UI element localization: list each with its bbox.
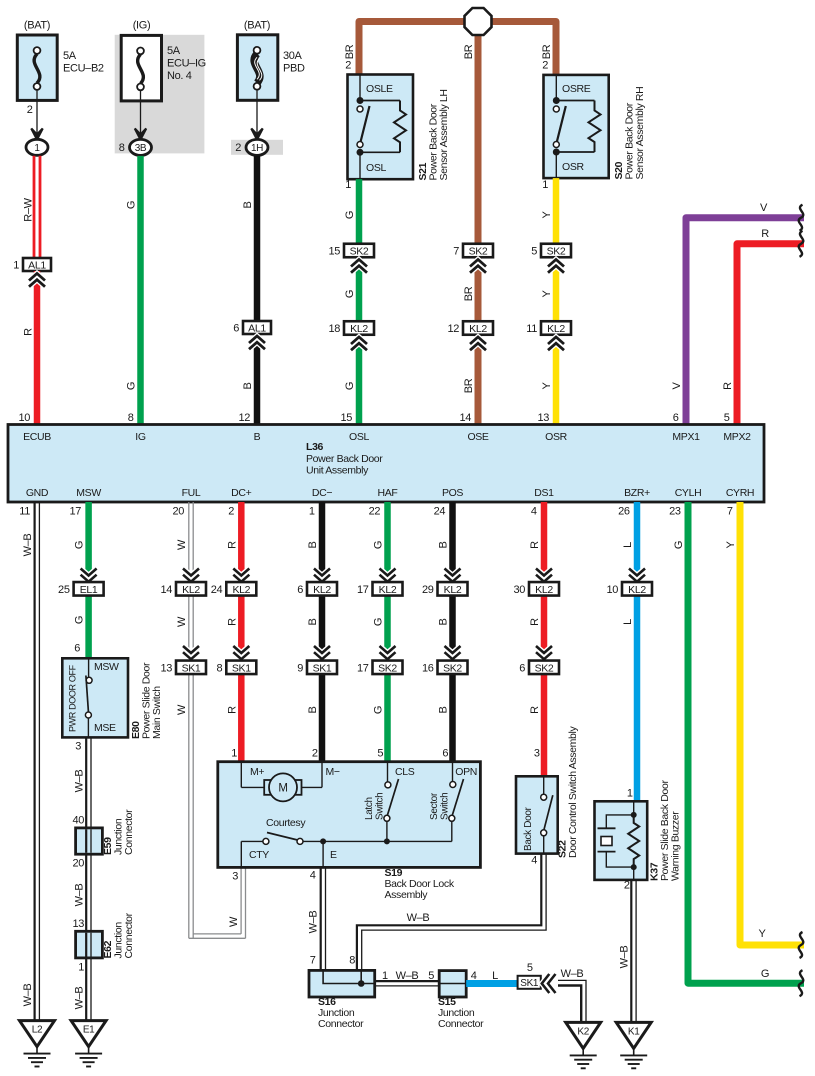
wire R from AL1 to L36 pin 10 (ECUB) xyxy=(18,271,40,425)
svg-text:G: G xyxy=(344,211,356,219)
svg-text:13: 13 xyxy=(160,662,172,674)
door control switch S22 (Door Control Switch Assembly) xyxy=(516,776,558,853)
wire label R-W xyxy=(23,197,35,221)
svg-text:1: 1 xyxy=(345,179,351,191)
wire label B xyxy=(307,619,319,626)
svg-text:5: 5 xyxy=(377,748,383,760)
wire label BR xyxy=(463,378,475,393)
back door sensor S21 (Power Back Door Sensor Assembly LH) xyxy=(348,75,414,180)
wire label W-B xyxy=(308,911,320,934)
svg-text:R: R xyxy=(226,541,238,549)
svg-text:G: G xyxy=(373,541,385,549)
warning buzzer K37 (Power Slide Back Door Warning Buzzer) xyxy=(595,801,648,880)
wire label G xyxy=(344,290,356,298)
chevron below KL2 xyxy=(548,337,564,350)
svg-text:1: 1 xyxy=(231,748,237,760)
wire label W xyxy=(176,539,188,550)
wire R (MPX2) multiplex line xyxy=(724,244,804,425)
svg-text:KL2: KL2 xyxy=(535,584,553,596)
wire G from L36 pin 17 (MSW) to E80 pin 6 xyxy=(69,502,91,658)
wire R from L36 pin 2 to pin 1 xyxy=(228,502,244,762)
wire label W xyxy=(176,616,188,627)
fuse 5A ECU-IG No. 4 (IG) xyxy=(121,20,206,138)
svg-text:Connector: Connector xyxy=(123,809,135,855)
wire label B xyxy=(242,383,254,390)
svg-text:KL2: KL2 xyxy=(350,323,368,335)
svg-text:CYRH: CYRH xyxy=(726,487,754,499)
label S20 Power Back Door Sensor Assembly RH xyxy=(613,87,646,180)
svg-text:BR: BR xyxy=(463,378,475,393)
svg-text:CTY: CTY xyxy=(249,849,269,861)
wire L from S15 pin 4 to SK1 pin 5 xyxy=(466,970,517,987)
wire W-B from L36 pin 11 (GND) to ground L2 xyxy=(19,502,39,1021)
svg-text:G: G xyxy=(761,968,769,980)
label K37 Power Slide Back Door Warning Buzzer xyxy=(649,780,682,881)
connector arrow into node 1 xyxy=(31,129,42,140)
svg-text:KL2: KL2 xyxy=(182,584,200,596)
svg-text:KL2: KL2 xyxy=(547,323,565,335)
svg-text:R: R xyxy=(529,541,541,549)
wire B from L36 pin 24 to pin 6 xyxy=(434,502,456,762)
svg-text:OSR: OSR xyxy=(545,431,567,443)
svg-text:1: 1 xyxy=(78,962,84,974)
wire label R xyxy=(226,706,238,714)
svg-text:OSL: OSL xyxy=(349,431,369,443)
svg-text:K2: K2 xyxy=(577,1026,589,1037)
connector SK1 pin 5 xyxy=(518,962,541,989)
back door sensor S20 (Power Back Door Sensor Assembly RH) xyxy=(544,75,609,178)
chevron above connector xyxy=(233,569,249,582)
connector KL2 pin 10 xyxy=(606,582,652,596)
connector KL2 pin 14 xyxy=(160,582,206,596)
svg-text:1: 1 xyxy=(309,506,315,518)
svg-text:ECU–B2: ECU–B2 xyxy=(63,63,104,75)
wire label G xyxy=(673,541,685,549)
svg-text:SK1: SK1 xyxy=(232,662,251,674)
svg-text:3: 3 xyxy=(75,741,81,753)
svg-text:17: 17 xyxy=(357,662,369,674)
svg-text:R: R xyxy=(722,382,734,390)
svg-text:Switch: Switch xyxy=(440,793,451,820)
wire W-B from K37 pin 2 to ground K1 xyxy=(624,880,636,1023)
svg-text:OSL: OSL xyxy=(366,162,386,174)
svg-text:Main Switch: Main Switch xyxy=(151,686,163,739)
svg-text:(BAT): (BAT) xyxy=(244,20,270,32)
svg-text:R–W: R–W xyxy=(23,197,35,221)
svg-text:V: V xyxy=(760,202,768,214)
svg-text:DS1: DS1 xyxy=(534,487,554,499)
svg-text:10: 10 xyxy=(606,584,618,596)
wire W-B from SK1 to ground K2 xyxy=(558,980,586,1022)
svg-text:ECU–IG: ECU–IG xyxy=(167,58,206,70)
chevron above connector xyxy=(233,646,249,659)
svg-text:4: 4 xyxy=(531,506,537,518)
continuation squiggle on wire R xyxy=(799,231,804,257)
connector KL2 pin 29 xyxy=(422,582,468,596)
svg-text:B: B xyxy=(242,383,254,390)
svg-text:Connector: Connector xyxy=(318,1018,364,1030)
svg-text:W–B: W–B xyxy=(74,987,86,1010)
continuation squiggle on wire Y xyxy=(799,932,804,958)
svg-text:8: 8 xyxy=(128,412,134,424)
svg-text:2: 2 xyxy=(228,506,234,518)
connector SK2 pin 5 xyxy=(531,244,571,258)
wire label W-B xyxy=(22,534,34,557)
chevron above connector xyxy=(536,569,552,582)
svg-text:Connector: Connector xyxy=(438,1018,484,1030)
connector KL2 pin 30 xyxy=(513,582,559,596)
svg-text:G: G xyxy=(344,290,356,298)
svg-text:G: G xyxy=(74,541,86,549)
wire label G xyxy=(373,618,385,626)
wire G from S21 pin 1 to L36 pin 15 (OSL) xyxy=(340,179,362,425)
chevron above connector xyxy=(314,569,330,582)
wire label W-B (horizontal) xyxy=(407,912,430,924)
svg-text:8: 8 xyxy=(119,142,125,154)
svg-text:2: 2 xyxy=(542,60,548,72)
pin 2 of S21 xyxy=(345,60,351,72)
wire label L xyxy=(622,619,634,625)
connector arrow into node 1H xyxy=(251,129,262,140)
svg-text:W–B: W–B xyxy=(22,984,34,1007)
chevron above connector xyxy=(536,646,552,659)
svg-text:B: B xyxy=(242,202,254,209)
wire G from L36 pin 23 (CYLH) to right edge xyxy=(669,502,804,983)
svg-text:G: G xyxy=(344,382,356,390)
svg-text:G: G xyxy=(74,616,86,624)
svg-text:5: 5 xyxy=(531,246,537,258)
svg-text:Y: Y xyxy=(541,382,553,390)
svg-text:B: B xyxy=(438,619,450,626)
wire label R xyxy=(23,328,35,336)
svg-text:15: 15 xyxy=(340,412,352,424)
svg-text:5: 5 xyxy=(724,412,730,424)
chevron below SK2 xyxy=(470,260,486,273)
wire label R xyxy=(761,228,769,240)
svg-text:G: G xyxy=(373,618,385,626)
svg-text:5A: 5A xyxy=(63,50,77,62)
svg-text:R: R xyxy=(761,228,769,240)
svg-text:L: L xyxy=(622,542,634,548)
junction connector E59, pins 40/20 xyxy=(72,815,102,870)
wire BR bus left branch to S21 pin 2 xyxy=(359,22,464,75)
connector SK1 pin 8 xyxy=(217,661,257,675)
svg-text:KL2: KL2 xyxy=(232,584,250,596)
wire label G xyxy=(126,382,138,390)
svg-text:1: 1 xyxy=(627,788,633,800)
ground L2 xyxy=(20,1021,55,1067)
wire label Y (bottom) xyxy=(759,928,767,940)
svg-text:B: B xyxy=(254,431,261,443)
label S19 Back Door Lock Assembly xyxy=(385,867,455,901)
wire label G xyxy=(126,201,138,209)
connector arrow into node 3B xyxy=(135,129,146,140)
chevron above connector xyxy=(314,646,330,659)
chevron on wire B below AL1 xyxy=(249,336,265,349)
wire label BR (right branch) xyxy=(541,44,553,59)
chevron below SK2 xyxy=(351,260,367,273)
svg-text:18: 18 xyxy=(328,323,340,335)
wire B from node 1H to L36 pin 12 (B) xyxy=(238,156,260,425)
svg-text:SK1: SK1 xyxy=(182,662,201,674)
svg-text:Unit Assembly: Unit Assembly xyxy=(306,465,369,477)
chevron above KL2 xyxy=(183,569,199,582)
wire V (MPX1) multiplex line xyxy=(673,218,804,425)
svg-text:OSLE: OSLE xyxy=(366,83,393,95)
svg-text:25: 25 xyxy=(58,584,70,596)
svg-text:R: R xyxy=(529,618,541,626)
svg-text:8: 8 xyxy=(217,662,223,674)
chevron below SK2 xyxy=(548,260,564,273)
svg-text:5: 5 xyxy=(428,970,434,982)
chevron above KL2 xyxy=(629,569,645,582)
svg-text:2: 2 xyxy=(235,142,241,154)
wire label BR (left branch) xyxy=(344,44,356,59)
wire R-W from node 1 to AL1 xyxy=(34,156,40,259)
svg-text:29: 29 xyxy=(422,584,434,596)
node 3B (connector oval), pin 8 xyxy=(119,139,152,155)
svg-text:K1: K1 xyxy=(628,1026,640,1037)
wire label V (vertical) xyxy=(671,382,683,390)
wire label Y xyxy=(725,541,737,549)
shaded strip behind connector 1H xyxy=(231,140,283,155)
wire Y from S20 pin 1 to L36 pin 13 (OSR) xyxy=(537,178,559,424)
svg-text:Y: Y xyxy=(759,928,767,940)
wire G from node 3B to L36 pin 8 (IG) xyxy=(128,156,144,425)
svg-text:L2: L2 xyxy=(32,1025,43,1036)
connector AL1 pin 6 xyxy=(233,321,271,335)
svg-text:9: 9 xyxy=(297,662,303,674)
ground K2 xyxy=(566,1022,601,1068)
svg-text:DC+: DC+ xyxy=(231,487,251,499)
wire W-B from S22 pin 4 to S16 pin 8 xyxy=(349,854,546,971)
label E62 Junction Connector xyxy=(102,912,135,958)
svg-text:No. 4: No. 4 xyxy=(167,70,192,82)
fuse 5A ECU-B2 (BAT) xyxy=(17,20,104,138)
connector SK2 pin 17 xyxy=(357,661,403,675)
svg-text:2: 2 xyxy=(312,748,318,760)
svg-text:KL2: KL2 xyxy=(469,323,487,335)
ground E1 xyxy=(71,1021,106,1067)
svg-text:Switch: Switch xyxy=(375,793,386,820)
svg-text:MSW: MSW xyxy=(76,487,101,499)
wire W-B from E80 pin 3 to E59 xyxy=(75,737,91,828)
svg-text:KL2: KL2 xyxy=(313,584,331,596)
connector KL2 pin 17 xyxy=(357,582,403,596)
connector SK2 pin 15 xyxy=(328,244,374,258)
svg-text:1H: 1H xyxy=(251,143,263,154)
svg-text:Warning Buzzer: Warning Buzzer xyxy=(670,811,682,881)
svg-text:OPN: OPN xyxy=(455,766,477,778)
svg-text:10: 10 xyxy=(18,412,30,424)
wire label G xyxy=(373,541,385,549)
svg-text:30: 30 xyxy=(513,584,525,596)
svg-text:ECUB: ECUB xyxy=(23,431,51,443)
svg-text:14: 14 xyxy=(160,584,172,596)
svg-text:G: G xyxy=(373,706,385,714)
svg-text:KL2: KL2 xyxy=(379,584,397,596)
svg-text:KL2: KL2 xyxy=(444,584,462,596)
wire label W-B xyxy=(74,884,86,907)
continuation squiggle on wire V xyxy=(799,205,804,231)
svg-text:CYLH: CYLH xyxy=(675,487,702,499)
svg-text:30A: 30A xyxy=(283,50,303,62)
svg-text:BZR+: BZR+ xyxy=(624,487,650,499)
svg-text:W: W xyxy=(176,704,188,715)
svg-text:6: 6 xyxy=(519,662,525,674)
wire label BR (centre) xyxy=(463,44,475,59)
svg-text:W–B: W–B xyxy=(74,884,86,907)
svg-text:13: 13 xyxy=(537,412,549,424)
svg-text:17: 17 xyxy=(69,506,81,518)
svg-text:B: B xyxy=(438,542,450,549)
chevron above EL1 xyxy=(81,569,97,582)
back door lock S19 (Back Door Lock Assembly) xyxy=(218,762,481,868)
svg-text:Y: Y xyxy=(541,290,553,298)
junction connector S15 xyxy=(439,971,466,997)
wire W-B from E59 to E62 xyxy=(86,854,91,931)
fuse 30A PBD (BAT) xyxy=(237,20,305,138)
wire label W xyxy=(176,704,188,715)
svg-text:7: 7 xyxy=(310,955,316,967)
wire label Y xyxy=(541,211,553,219)
svg-text:B: B xyxy=(438,707,450,714)
connector SK2 pin 6 xyxy=(519,661,559,675)
svg-text:Back Door: Back Door xyxy=(523,806,534,851)
svg-text:2: 2 xyxy=(624,880,630,892)
wire BR bus right branch to S20 pin 2 xyxy=(492,22,556,75)
wire label B xyxy=(438,707,450,714)
svg-text:W: W xyxy=(228,916,240,927)
continuation squiggle on wire G xyxy=(799,970,804,996)
svg-text:4: 4 xyxy=(471,970,477,982)
svg-text:2: 2 xyxy=(27,104,33,116)
svg-text:15: 15 xyxy=(328,246,340,258)
wire label G xyxy=(373,706,385,714)
svg-text:M+: M+ xyxy=(250,766,264,778)
svg-text:1: 1 xyxy=(382,970,388,982)
wire B from L36 pin 1 to pin 2 xyxy=(309,502,325,762)
svg-text:Door Control Switch Assembly: Door Control Switch Assembly xyxy=(567,725,579,858)
label E59 Junction Connector xyxy=(102,809,135,855)
svg-text:11: 11 xyxy=(526,323,537,335)
label E80 Power Slide Door Main Switch xyxy=(130,662,163,739)
svg-text:OSRE: OSRE xyxy=(562,83,591,95)
svg-text:7: 7 xyxy=(727,506,733,518)
svg-text:3: 3 xyxy=(534,748,540,760)
wire label G xyxy=(344,211,356,219)
svg-text:B: B xyxy=(307,619,319,626)
svg-text:24: 24 xyxy=(434,506,446,518)
svg-text:1: 1 xyxy=(13,260,19,272)
wire G from L36 pin 22 to pin 5 xyxy=(369,502,391,762)
connector KL2 pin 12 xyxy=(447,321,493,335)
svg-text:IG: IG xyxy=(135,431,146,443)
chevron below KL2 xyxy=(351,337,367,350)
svg-text:G: G xyxy=(126,201,138,209)
svg-text:OSE: OSE xyxy=(467,431,488,443)
svg-text:Y: Y xyxy=(725,541,737,549)
chevron above connector xyxy=(380,646,396,659)
svg-text:6: 6 xyxy=(297,584,303,596)
connector AL1 pin 1 xyxy=(13,258,51,272)
svg-text:40: 40 xyxy=(72,815,84,827)
wire label G (bottom) xyxy=(761,968,769,980)
chevron above connector xyxy=(380,569,396,582)
svg-text:4: 4 xyxy=(310,870,316,882)
label S22 Door Control Switch Assembly xyxy=(557,725,580,858)
svg-text:SK2: SK2 xyxy=(443,662,462,674)
chevron above connector xyxy=(445,569,461,582)
svg-text:MPX2: MPX2 xyxy=(723,431,751,443)
wire label Y xyxy=(541,382,553,390)
node 1H (connector oval), pin 2 xyxy=(235,139,268,155)
svg-text:12: 12 xyxy=(238,412,250,424)
svg-text:M: M xyxy=(278,783,287,795)
svg-text:1: 1 xyxy=(34,143,40,154)
svg-text:POS: POS xyxy=(442,487,463,499)
svg-text:Assembly: Assembly xyxy=(385,889,429,901)
wire label G xyxy=(344,382,356,390)
chevron above connector xyxy=(445,646,461,659)
svg-text:B: B xyxy=(307,707,319,714)
main switch E80 (Power Slide Door Main Switch) xyxy=(62,658,128,737)
label S21 Power Back Door Sensor Assembly LH xyxy=(417,89,450,180)
svg-text:PBD: PBD xyxy=(283,63,305,75)
svg-text:2: 2 xyxy=(345,60,351,72)
svg-text:EL1: EL1 xyxy=(80,584,98,596)
svg-text:V: V xyxy=(671,382,683,390)
connector KL2 pin 6 xyxy=(297,582,337,596)
wire label W-B xyxy=(22,984,34,1007)
connector SK2 pin 16 xyxy=(422,661,468,675)
svg-text:BR: BR xyxy=(541,44,553,59)
connector EL1 pin 25 xyxy=(58,582,104,596)
wire label BR xyxy=(463,286,475,301)
chevron right of SK1 xyxy=(542,974,556,993)
wire label W (riser to CTY) xyxy=(228,916,240,927)
wire label W-B xyxy=(561,968,584,980)
chevron on wire R below AL1 xyxy=(29,274,45,287)
connector SK1 pin 9 xyxy=(297,661,337,675)
svg-text:FUL: FUL xyxy=(182,487,201,499)
wire label G xyxy=(74,616,86,624)
label S15 Junction Connector xyxy=(438,996,484,1030)
wire W-B from E62 to ground E1 xyxy=(86,958,91,1021)
svg-text:W–B: W–B xyxy=(561,968,584,980)
wire Y from L36 pin 7 (CYRH) to right edge xyxy=(727,502,804,945)
svg-text:MSE: MSE xyxy=(94,722,116,734)
svg-text:W–B: W–B xyxy=(74,770,86,793)
svg-text:W: W xyxy=(176,616,188,627)
svg-text:5: 5 xyxy=(527,962,533,974)
svg-text:8: 8 xyxy=(349,955,355,967)
svg-text:6: 6 xyxy=(442,748,448,760)
wire label Y xyxy=(541,290,553,298)
svg-text:6: 6 xyxy=(74,643,80,655)
svg-text:BR: BR xyxy=(463,286,475,301)
svg-text:PWR DOOR OFF: PWR DOOR OFF xyxy=(68,664,78,732)
wire label B xyxy=(307,542,319,549)
svg-text:1: 1 xyxy=(542,179,548,191)
connector KL2 pin 24 xyxy=(211,582,257,596)
chevron below KL2 xyxy=(470,337,486,350)
svg-text:BR: BR xyxy=(344,44,356,59)
svg-text:Sensor Assembly LH: Sensor Assembly LH xyxy=(438,89,450,180)
svg-text:CLS: CLS xyxy=(395,766,415,778)
junction connector E62, pins 13/1 xyxy=(72,918,102,974)
svg-text:6: 6 xyxy=(673,412,679,424)
